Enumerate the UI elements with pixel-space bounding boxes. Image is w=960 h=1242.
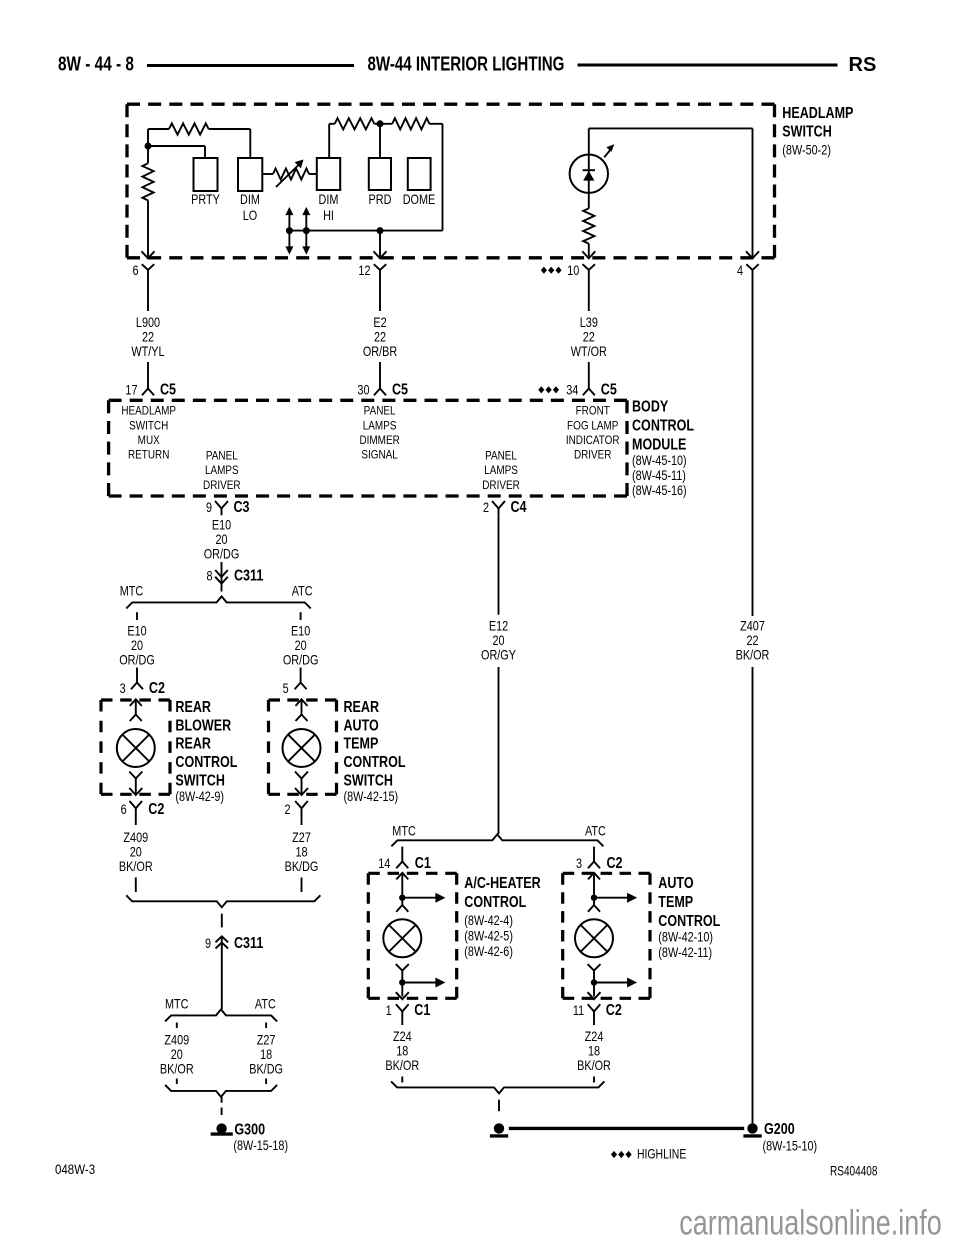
- svg-text:5: 5: [283, 681, 289, 696]
- svg-text:(8W-45-16): (8W-45-16): [632, 483, 687, 498]
- svg-text:22: 22: [374, 329, 386, 344]
- svg-text:DIM: DIM: [319, 192, 339, 207]
- svg-text:(8W-15-18): (8W-15-18): [233, 1138, 288, 1153]
- svg-text:20: 20: [215, 532, 227, 547]
- svg-text:C4: C4: [511, 498, 527, 516]
- svg-text:C5: C5: [601, 380, 617, 398]
- svg-text:2: 2: [284, 802, 290, 817]
- svg-text:18: 18: [260, 1047, 272, 1062]
- svg-text:HEADLAMP: HEADLAMP: [121, 405, 176, 418]
- svg-text:20: 20: [492, 633, 504, 648]
- svg-text:(8W-42-15): (8W-42-15): [344, 789, 399, 804]
- svg-text:E10: E10: [212, 517, 232, 532]
- svg-text:14: 14: [378, 856, 390, 871]
- svg-text:A/C-HEATER: A/C-HEATER: [464, 874, 540, 892]
- svg-text:BK/OR: BK/OR: [385, 1058, 419, 1073]
- svg-text:SWITCH: SWITCH: [129, 420, 168, 433]
- svg-text:PRD: PRD: [369, 192, 392, 207]
- svg-text:L39: L39: [580, 315, 598, 330]
- svg-text:PANEL: PANEL: [485, 450, 517, 463]
- svg-text:AUTO: AUTO: [658, 874, 693, 892]
- svg-text:FOG LAMP: FOG LAMP: [567, 420, 618, 433]
- svg-text:10: 10: [567, 263, 579, 278]
- svg-text:Z24: Z24: [393, 1029, 412, 1044]
- svg-text:6: 6: [132, 263, 138, 278]
- svg-text:LAMPS: LAMPS: [205, 465, 239, 478]
- svg-text:TEMP: TEMP: [658, 893, 693, 911]
- svg-text:BK/OR: BK/OR: [160, 1061, 194, 1076]
- svg-text:20: 20: [130, 844, 142, 859]
- svg-text:LO: LO: [243, 208, 257, 223]
- svg-text:Z24: Z24: [585, 1029, 604, 1044]
- svg-text:DIM: DIM: [240, 192, 260, 207]
- svg-text:CONTROL: CONTROL: [658, 912, 720, 930]
- svg-text:CONTROL: CONTROL: [344, 753, 406, 771]
- svg-text:SIGNAL: SIGNAL: [361, 449, 397, 462]
- svg-text:SWITCH: SWITCH: [175, 771, 224, 789]
- svg-text:OR/DG: OR/DG: [283, 652, 319, 667]
- svg-text:E10: E10: [291, 623, 311, 638]
- svg-text:MTC: MTC: [165, 996, 189, 1011]
- svg-text:ATC: ATC: [585, 823, 606, 838]
- svg-text:REAR: REAR: [175, 698, 211, 716]
- svg-text:OR/DG: OR/DG: [119, 652, 155, 667]
- svg-text:18: 18: [295, 844, 307, 859]
- svg-text:SWITCH: SWITCH: [344, 771, 393, 789]
- svg-text:C5: C5: [392, 380, 408, 398]
- svg-text:34: 34: [566, 383, 578, 398]
- svg-text:PANEL: PANEL: [206, 450, 238, 463]
- svg-text:Z27: Z27: [257, 1032, 276, 1047]
- svg-text:OR/DG: OR/DG: [204, 546, 240, 561]
- svg-text:1: 1: [386, 1003, 392, 1018]
- svg-text:DRIVER: DRIVER: [203, 479, 241, 492]
- svg-text:WT/OR: WT/OR: [571, 344, 607, 359]
- svg-text:HEADLAMP: HEADLAMP: [782, 104, 853, 122]
- svg-text:ATC: ATC: [255, 996, 276, 1011]
- svg-text:3: 3: [120, 681, 126, 696]
- svg-text:WT/YL: WT/YL: [131, 344, 164, 359]
- svg-text:DOME: DOME: [403, 192, 436, 207]
- svg-text:C2: C2: [148, 800, 164, 818]
- svg-text:22: 22: [583, 329, 595, 344]
- svg-text:MTC: MTC: [120, 583, 144, 598]
- svg-text:C311: C311: [234, 934, 263, 952]
- svg-text:(8W-45-10): (8W-45-10): [632, 453, 687, 468]
- svg-text:RETURN: RETURN: [128, 449, 169, 462]
- svg-text:G300: G300: [234, 1120, 265, 1138]
- svg-text:20: 20: [295, 638, 307, 653]
- svg-text:(8W-42-5): (8W-42-5): [464, 928, 513, 943]
- svg-text:carmanualsonline.info: carmanualsonline.info: [679, 1203, 942, 1242]
- svg-text:11: 11: [573, 1003, 584, 1018]
- svg-text:DRIVER: DRIVER: [482, 479, 520, 492]
- svg-text:PRTY: PRTY: [191, 192, 220, 207]
- svg-text:3: 3: [576, 856, 582, 871]
- svg-text:22: 22: [142, 329, 154, 344]
- svg-text:17: 17: [125, 383, 137, 398]
- svg-text:Z407: Z407: [740, 618, 765, 633]
- svg-text:18: 18: [396, 1043, 408, 1058]
- svg-text:048W-3: 048W-3: [55, 1162, 95, 1177]
- svg-text:MODULE: MODULE: [632, 435, 686, 453]
- svg-text:(8W-42-9): (8W-42-9): [175, 789, 224, 804]
- svg-text:(8W-42-4): (8W-42-4): [464, 913, 513, 928]
- svg-text:20: 20: [171, 1047, 183, 1062]
- svg-text:ATC: ATC: [292, 583, 313, 598]
- svg-text:PANEL: PANEL: [364, 405, 396, 418]
- svg-text:CONTROL: CONTROL: [175, 753, 237, 771]
- svg-text:C2: C2: [149, 679, 165, 697]
- svg-text:G200: G200: [764, 1120, 795, 1138]
- svg-text:(8W-45-11): (8W-45-11): [632, 468, 686, 483]
- svg-text:LAMPS: LAMPS: [484, 465, 518, 478]
- svg-text:Z27: Z27: [292, 830, 311, 845]
- svg-text:Z409: Z409: [123, 830, 148, 845]
- svg-text:C5: C5: [160, 380, 176, 398]
- svg-text:C2: C2: [607, 854, 623, 872]
- svg-text:6: 6: [121, 802, 127, 817]
- svg-text:BODY: BODY: [632, 397, 669, 415]
- svg-text:8: 8: [206, 569, 212, 584]
- svg-text:REAR: REAR: [344, 698, 380, 716]
- svg-text:9: 9: [205, 936, 211, 951]
- svg-text:(8W-42-10): (8W-42-10): [658, 929, 713, 944]
- svg-text:RS404408: RS404408: [830, 1163, 878, 1179]
- svg-text:2: 2: [483, 500, 489, 515]
- svg-text:E10: E10: [127, 623, 147, 638]
- svg-text:BK/OR: BK/OR: [736, 647, 770, 662]
- svg-text:30: 30: [357, 383, 369, 398]
- svg-text:(8W-15-10): (8W-15-10): [763, 1138, 818, 1153]
- svg-text:(8W-50-2): (8W-50-2): [782, 142, 831, 157]
- svg-text:BK/OR: BK/OR: [577, 1058, 611, 1073]
- svg-text:LAMPS: LAMPS: [363, 420, 397, 433]
- svg-text:C1: C1: [415, 854, 431, 872]
- svg-text:12: 12: [358, 263, 370, 278]
- svg-text:HI: HI: [323, 208, 334, 223]
- svg-text:DRIVER: DRIVER: [574, 449, 612, 462]
- svg-text:18: 18: [588, 1043, 600, 1058]
- svg-text:(8W-42-6): (8W-42-6): [464, 944, 513, 959]
- svg-text:20: 20: [131, 638, 143, 653]
- svg-text:CONTROL: CONTROL: [464, 893, 526, 911]
- svg-text:E2: E2: [373, 315, 386, 330]
- svg-text:OR/BR: OR/BR: [363, 344, 398, 359]
- svg-text:FRONT: FRONT: [576, 405, 611, 418]
- svg-text:INDICATOR: INDICATOR: [566, 434, 620, 447]
- svg-text:REAR: REAR: [175, 734, 211, 752]
- svg-text:BK/DG: BK/DG: [249, 1061, 283, 1076]
- svg-text:MUX: MUX: [138, 434, 160, 447]
- svg-text:4: 4: [737, 263, 743, 278]
- svg-text:HIGHLINE: HIGHLINE: [637, 1146, 686, 1162]
- svg-text:OR/GY: OR/GY: [481, 647, 516, 662]
- svg-text:C3: C3: [234, 498, 250, 516]
- svg-text:E12: E12: [489, 618, 509, 633]
- svg-text:CONTROL: CONTROL: [632, 416, 694, 434]
- svg-text:BK/OR: BK/OR: [119, 859, 153, 874]
- svg-text:8W-44 INTERIOR LIGHTING: 8W-44 INTERIOR LIGHTING: [368, 52, 565, 75]
- svg-text:C1: C1: [414, 1001, 430, 1019]
- svg-text:SWITCH: SWITCH: [782, 122, 831, 140]
- svg-text:22: 22: [746, 633, 758, 648]
- svg-text:BLOWER: BLOWER: [175, 716, 231, 734]
- svg-text:AUTO: AUTO: [344, 716, 379, 734]
- svg-text:MTC: MTC: [392, 823, 416, 838]
- svg-text:C2: C2: [606, 1001, 622, 1019]
- svg-text:DIMMER: DIMMER: [359, 434, 399, 447]
- svg-text:8W - 44 - 8: 8W - 44 - 8: [58, 53, 134, 75]
- svg-text:BK/DG: BK/DG: [285, 859, 319, 874]
- svg-text:L900: L900: [136, 315, 160, 330]
- svg-text:Z409: Z409: [164, 1032, 189, 1047]
- svg-text:9: 9: [206, 500, 212, 515]
- svg-text:(8W-42-11): (8W-42-11): [658, 945, 712, 960]
- svg-text:TEMP: TEMP: [344, 734, 379, 752]
- svg-text:C311: C311: [234, 566, 263, 584]
- svg-text:RS: RS: [849, 54, 877, 76]
